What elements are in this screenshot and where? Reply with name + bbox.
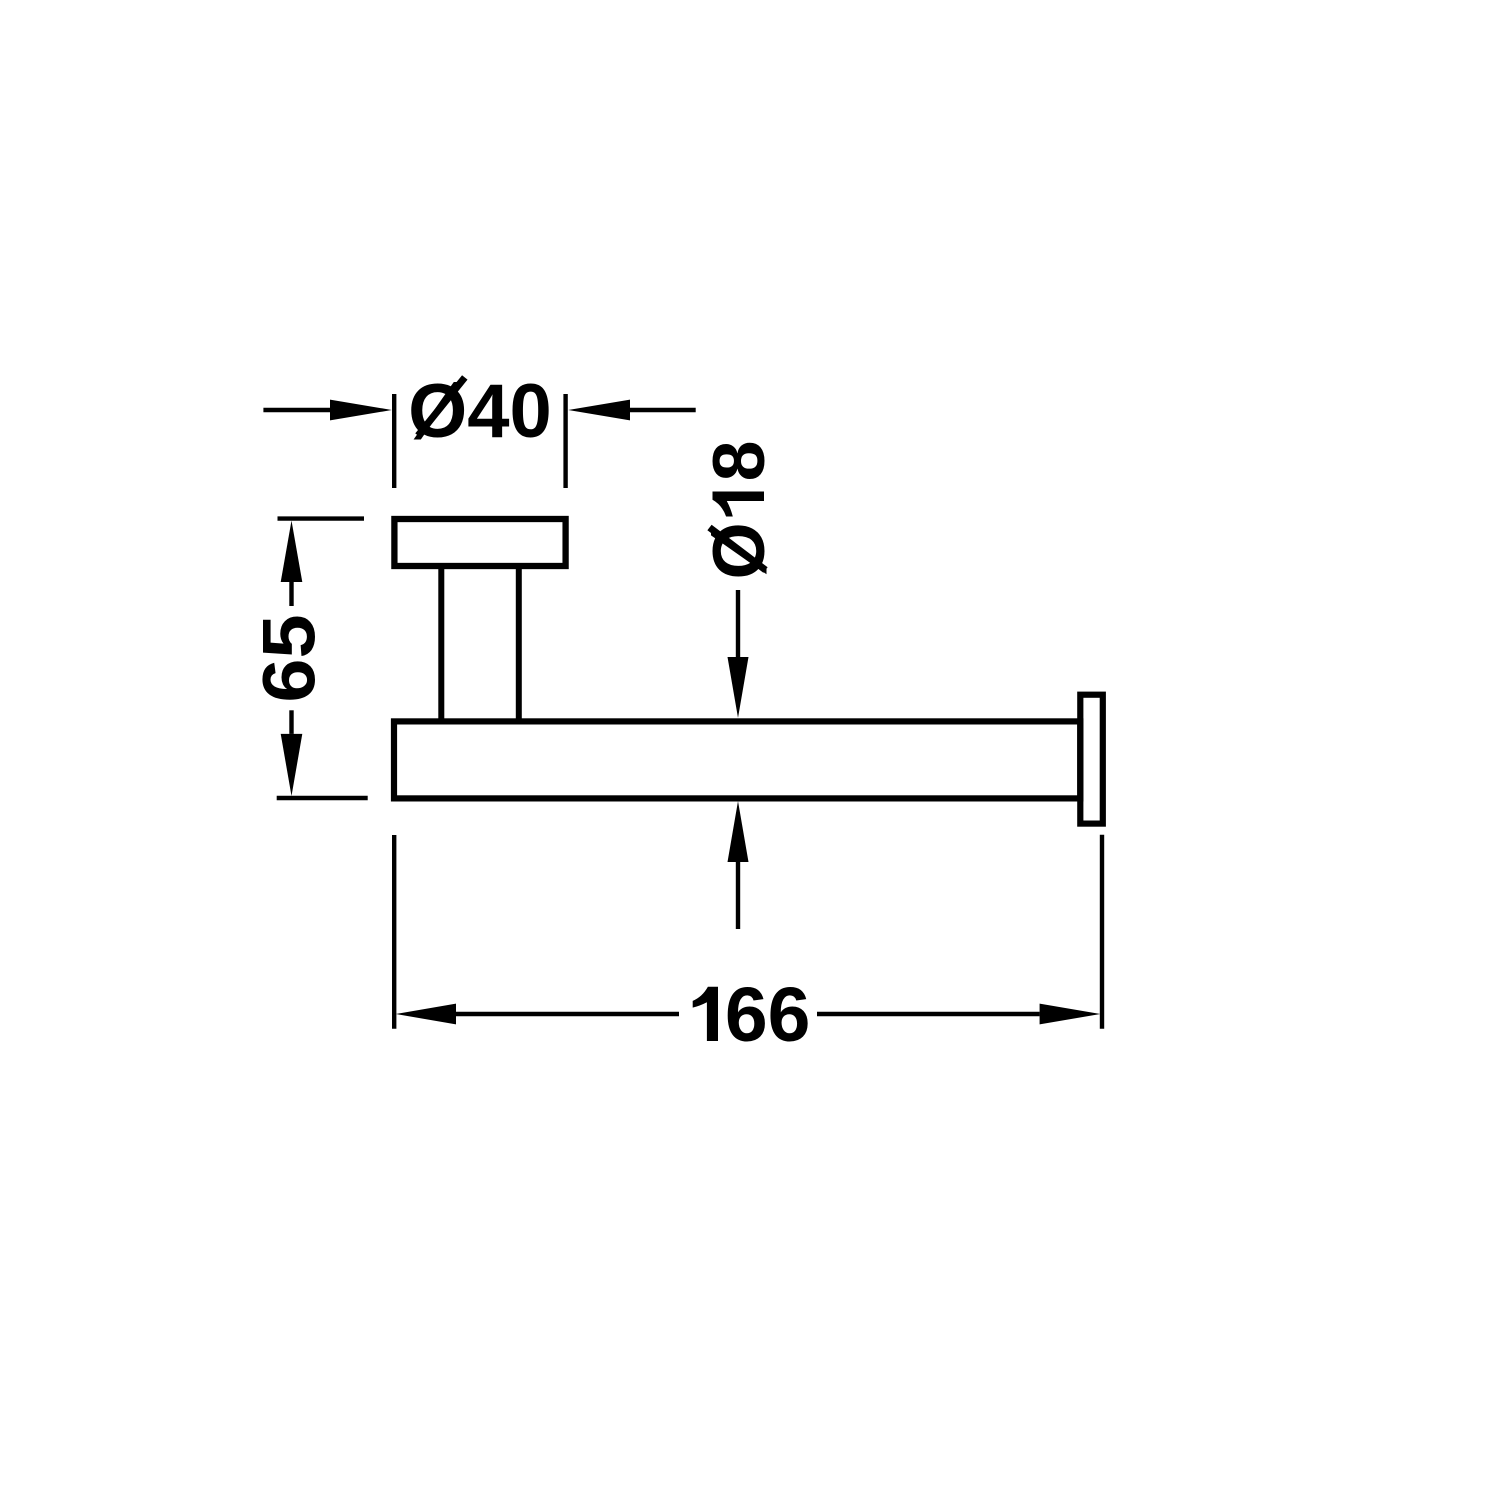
dim 166 right extension line	[1100, 835, 1104, 1029]
dim O18 upper arrow line	[736, 590, 740, 659]
svg-text:Ø40: Ø40	[408, 369, 552, 454]
dim 65 upper arrow line	[289, 582, 293, 606]
dim O18 lower arrow line	[736, 862, 740, 929]
svg-text:8: 8	[697, 441, 780, 482]
dim 166 right lead line	[817, 1012, 1040, 1016]
svg-text:66: 66	[725, 972, 811, 1058]
dim 65 upper arrowhead	[281, 521, 303, 582]
end cap	[1080, 695, 1103, 824]
dim 65 top extension line	[278, 516, 365, 520]
stem right line	[516, 566, 522, 721]
digit 1 of 166	[693, 987, 718, 1041]
dim 166 left arrowhead	[396, 1004, 456, 1025]
dim 166 right arrowhead	[1040, 1004, 1101, 1025]
dim 65 bottom extension line	[277, 796, 368, 800]
dim O18 upper arrowhead	[728, 657, 749, 718]
dim O40 left extension tick	[392, 394, 396, 488]
svg-text:65: 65	[249, 614, 331, 702]
dim 166 left extension line	[392, 835, 396, 1029]
stem left line	[438, 566, 444, 721]
O18 diameter slash overshoot	[710, 528, 766, 571]
dim O18 lower arrowhead	[728, 801, 749, 862]
flange (wall plate)	[394, 519, 565, 566]
bar (roll holder arm)	[394, 721, 1080, 798]
O40 diameter slash overshoot	[418, 377, 465, 435]
dim O40 right lead line	[630, 408, 696, 412]
dim O40 right extension tick	[563, 394, 567, 488]
dim O18 value label: O and 8 as text, custom 1 glyph	[697, 441, 780, 580]
dim 166 left lead line	[456, 1012, 679, 1016]
dim O40 left lead line	[263, 408, 331, 412]
digit 1 of O18	[713, 492, 765, 517]
dim O40 left arrowhead	[330, 400, 392, 421]
dim O40 right arrowhead	[568, 400, 630, 421]
dim 65 lower arrowhead	[281, 734, 303, 796]
dim 65 lower arrow line	[289, 710, 293, 734]
